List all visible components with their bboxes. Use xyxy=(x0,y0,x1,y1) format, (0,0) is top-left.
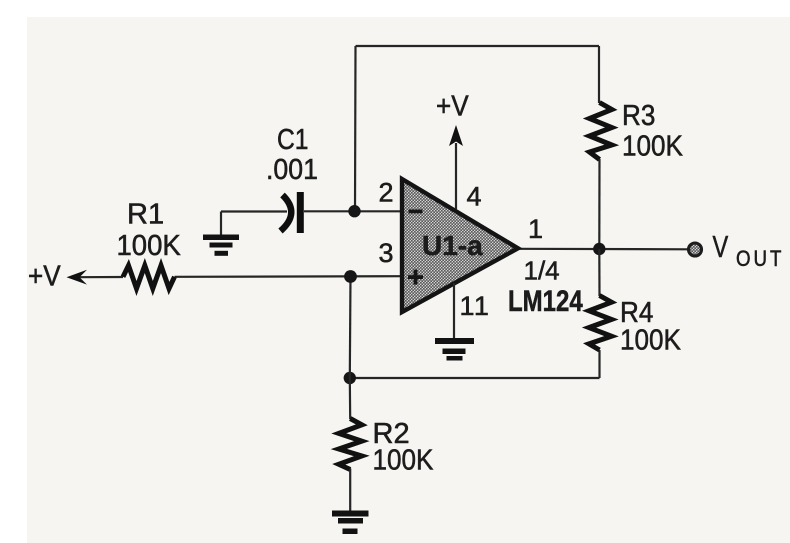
svg-text:11: 11 xyxy=(460,291,491,321)
wire: R4 bottom down to bottom feedback wire xyxy=(598,350,600,378)
wire: bottom junction down to R2 xyxy=(349,378,352,419)
svg-text:.001: .001 xyxy=(266,153,318,185)
op-amp inverting input minus xyxy=(409,210,423,214)
wire: R2 bottom to ground xyxy=(349,469,351,512)
capacitor C1 straight plate xyxy=(297,192,304,233)
svg-text:100K: 100K xyxy=(117,228,181,261)
wire: +V supply to op-amp pin 4 xyxy=(455,143,457,209)
svg-text:2: 2 xyxy=(379,178,394,208)
arrowhead to +V left xyxy=(67,270,88,285)
resistor R2 xyxy=(339,419,362,470)
svg-text:100K: 100K xyxy=(622,129,684,162)
svg-text:+V: +V xyxy=(436,89,469,122)
svg-text:C1: C1 xyxy=(277,123,309,155)
svg-text:1/4: 1/4 xyxy=(524,256,560,286)
resistor R3 xyxy=(590,103,612,160)
resistor R4 xyxy=(589,296,612,351)
svg-text:100K: 100K xyxy=(620,323,682,356)
node bottom junction xyxy=(344,372,356,384)
node pin3 junction xyxy=(344,270,357,283)
wire: left +V rail (arrow to R1) xyxy=(78,276,123,278)
svg-text:OUT: OUT xyxy=(736,247,784,271)
wire: output node down to R4 xyxy=(598,249,600,296)
svg-text:LM124: LM124 xyxy=(508,283,583,317)
svg-text:3: 3 xyxy=(379,238,394,268)
wire: left +V rail through R1 to pin3 (right of resistor) xyxy=(175,275,403,278)
capacitor C1 curved plate xyxy=(281,195,292,231)
wire: pin2 horizontal from ground/C1 to op-amp xyxy=(221,210,402,212)
op-amp non-inverting input plus xyxy=(408,275,423,279)
wire: feedback loop top horizontal xyxy=(356,45,600,47)
wire: R3 bottom to output node xyxy=(598,159,600,249)
ground below pin 11 xyxy=(435,338,474,361)
ground at C1 left plate xyxy=(203,235,239,256)
svg-text:R3: R3 xyxy=(622,99,655,132)
svg-text:4: 4 xyxy=(467,182,482,212)
terminal VOUT xyxy=(689,243,702,256)
node output junction xyxy=(593,243,605,255)
svg-text:1: 1 xyxy=(528,214,543,244)
arrowhead +V supply xyxy=(449,125,463,146)
wire: feedback loop right vertical down to R3 xyxy=(598,46,600,103)
svg-text:U1-a: U1-a xyxy=(422,230,483,261)
wire: pin3 node down to bottom junction xyxy=(349,277,352,379)
wire: op-amp output to VOUT terminal xyxy=(518,248,688,251)
resistor R1 xyxy=(123,266,175,289)
op-amp U1-a triangle xyxy=(402,179,518,312)
ground below R2 xyxy=(332,511,369,535)
svg-text:R1: R1 xyxy=(127,199,164,231)
svg-text:V: V xyxy=(713,229,729,264)
wire: riser to ground at C1 xyxy=(220,212,222,236)
wire: feedback loop left vertical (node pin2 to top) xyxy=(354,46,357,211)
wire: bottom feedback horizontal xyxy=(350,377,600,379)
svg-text:+V: +V xyxy=(28,259,61,292)
svg-text:100K: 100K xyxy=(373,443,435,476)
wire: op-amp pin 11 to ground xyxy=(453,283,455,338)
node pin2 junction xyxy=(348,205,360,217)
